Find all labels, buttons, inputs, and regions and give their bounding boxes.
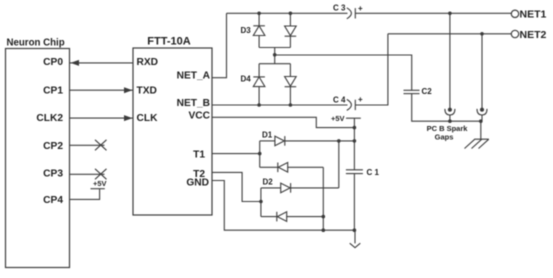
T2 vertical link [260,188,262,217]
svg-text:NET2: NET2 [520,29,547,41]
T1 vertical link [259,141,261,167]
diode D2 (right) [261,183,339,193]
left bus D1-D2 [338,141,340,188]
D3 merge wire [259,48,290,56]
arrowhead into TXD [124,87,133,93]
node dot gap1 on ground line [448,119,452,123]
wire C2 to gap ground [412,94,481,122]
svg-text:TXD: TXD [137,85,157,96]
wire to chassis ground [480,121,482,139]
svg-text:CP2: CP2 [43,141,63,152]
svg-text:GND: GND [186,178,209,189]
gnd bus vertical [322,167,324,230]
node dot D1 to +5V bus [353,139,357,143]
node dot D1 to left bus [337,139,341,143]
no-connect X CP2 [95,140,107,151]
wire CP4 to +5V [70,189,100,200]
node dot gap2 on ground line [479,119,483,123]
wire C4 to NET2 [355,34,388,105]
svg-text:+5V: +5V [93,179,107,188]
svg-text:+: + [358,4,363,13]
svg-text:NET1: NET1 [520,9,547,21]
capacitor C3 [347,8,352,19]
svg-text:NET_B: NET_B [177,98,210,109]
no-connect X CP3 [95,169,107,180]
wire CP3 no-connect [70,173,105,175]
capacitor C4 [347,99,352,110]
svg-text:CP4: CP4 [43,195,63,206]
D4 split wire [259,55,290,64]
+5V power bar (CP4) [91,188,105,190]
svg-text:CP3: CP3 [43,169,63,180]
svg-text:VCC: VCC [188,111,210,122]
svg-text:+: + [358,95,363,104]
node dot gnd bus on rail [322,228,326,232]
node middle junction [273,53,277,57]
VCC wire to +5V [212,117,354,127]
svg-text:D2: D2 [263,178,274,187]
svg-text:CLK: CLK [137,113,159,124]
svg-text:+5V: +5V [331,114,345,123]
node dot D3 right on rail [289,12,293,16]
terminal NET2 [511,30,518,37]
spark gap 2 [477,34,487,121]
node dot T1 [258,152,262,156]
svg-text:C 1: C 1 [367,168,380,177]
ground symbol [350,230,361,248]
node dot D3 left on rail [257,12,261,16]
capacitor C1 [346,169,363,171]
terminal NET1 [511,10,518,17]
NET2 line [388,33,511,35]
top rail NET1 left segment [227,12,348,14]
svg-text:CLK2: CLK2 [36,113,63,124]
wire CLK2-CLK [70,117,133,119]
svg-text:Gaps: Gaps [435,133,454,142]
diode D4 left (up) [253,64,265,105]
svg-text:D1: D1 [262,131,273,140]
svg-text:T1: T1 [193,150,205,161]
node dot D4 left on NET_B [257,103,261,107]
diode D2b (left, lower) [261,212,323,222]
wire middle junction to C2 [275,55,412,90]
wire T1 [212,153,260,155]
svg-text:NET_A: NET_A [177,70,211,81]
wire CP1-TXD [70,89,133,91]
wire CP0-RXD [70,62,133,64]
diode D3 left (up) [253,13,265,47]
diode D1b (left, lower) [260,163,324,173]
+5V bus down to C1 [353,128,355,170]
wire T2 [212,172,261,201]
Neuron Chip box [6,49,70,268]
svg-text:C2: C2 [422,87,433,96]
diode D3 right (down) [285,13,297,47]
arrowhead into CLK [124,115,133,121]
diode D1 (right) [260,136,355,146]
svg-text:D3: D3 [241,26,252,35]
svg-text:FTT-10A: FTT-10A [147,36,190,48]
node dot T2 [259,200,263,204]
chassis ground [465,139,489,148]
wire CP2 no-connect [70,144,105,146]
svg-text:Neuron Chip: Neuron Chip [7,37,65,48]
bus C1 to ground rail [353,174,355,231]
spark gap 1 [445,13,455,121]
node dot VCC junction [353,126,357,130]
node dot spark1 tap [448,12,452,16]
svg-text:RXD: RXD [137,57,159,68]
svg-text:CP1: CP1 [43,86,63,97]
node dot D4 right on NET_B [289,103,293,107]
+5V power bar (VCC) [346,118,361,127]
svg-text:C 3: C 3 [333,4,346,13]
wire NET_A to top rail [212,13,227,77]
capacitor C2 [404,89,420,91]
svg-text:CP0: CP0 [43,57,63,68]
top rail NET1 right segment [355,12,511,14]
node dot C1 on rail [353,228,357,232]
arrowhead into CP0 [71,60,80,66]
svg-text:C 4: C 4 [333,96,346,105]
node dot D2b on gnd bus [322,215,326,219]
diode D4 right (down) [285,64,297,105]
svg-text:D4: D4 [241,75,252,84]
NET_B wire to C4 [212,104,348,106]
node dot spark2 tap [480,32,484,36]
wire GND [212,181,355,231]
FTT-10A box [133,48,212,215]
